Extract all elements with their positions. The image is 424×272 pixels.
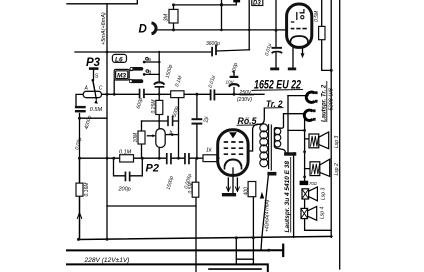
- svg-text:2µ: 2µ: [204, 116, 210, 123]
- svg-text:3600p: 3600p: [206, 41, 220, 47]
- svg-text:0.5M: 0.5M: [90, 107, 103, 113]
- svg-text:0.5M: 0.5M: [314, 10, 320, 22]
- svg-text:C: C: [99, 85, 103, 91]
- svg-text:1k: 1k: [206, 148, 212, 154]
- svg-text:Lsp 3: Lsp 3: [321, 188, 327, 200]
- svg-text:M3: M3: [117, 73, 126, 80]
- svg-text:S: S: [95, 74, 99, 80]
- svg-text:Lsp 3: Lsp 3: [334, 136, 340, 148]
- svg-text:P3: P3: [86, 57, 101, 69]
- svg-text:0.16M: 0.16M: [84, 182, 90, 197]
- svg-text:0.25M: 0.25M: [151, 99, 157, 114]
- svg-text:10M: 10M: [133, 132, 139, 143]
- svg-text:a: a: [149, 70, 152, 76]
- svg-text:Lautspr. 3u 4 5410 E 38: Lautspr. 3u 4 5410 E 38: [284, 161, 291, 233]
- svg-text:70Ω: 70Ω: [309, 181, 318, 186]
- svg-text:Lsp 2: Lsp 2: [334, 163, 340, 175]
- svg-text:0.1M: 0.1M: [119, 149, 132, 155]
- svg-text:L6: L6: [115, 56, 123, 63]
- svg-text:A: A: [84, 85, 89, 91]
- svg-text:200p: 200p: [118, 187, 131, 193]
- svg-text:b: b: [170, 130, 173, 136]
- svg-text:Rö.5: Rö.5: [238, 116, 258, 126]
- svg-text:10V: 10V: [226, 80, 235, 85]
- svg-text:D3: D3: [253, 1, 261, 7]
- svg-text:+40mA(47mA): +40mA(47mA): [265, 199, 271, 232]
- svg-text:+5mA(+6mA): +5mA(+6mA): [101, 12, 107, 45]
- svg-text:D: D: [139, 24, 147, 36]
- svg-text:P2: P2: [146, 162, 159, 174]
- svg-text:0.5M: 0.5M: [188, 182, 194, 194]
- svg-text:228V (12V±1V): 228V (12V±1V): [83, 257, 129, 264]
- svg-text:(230V): (230V): [237, 97, 252, 103]
- svg-text:5298 U/8: 5298 U/8: [329, 87, 335, 110]
- svg-text:a: a: [148, 57, 151, 63]
- svg-text:Lsp 4: Lsp 4: [319, 207, 325, 219]
- svg-text:400: 400: [243, 187, 249, 196]
- svg-text:3M: 3M: [164, 13, 170, 21]
